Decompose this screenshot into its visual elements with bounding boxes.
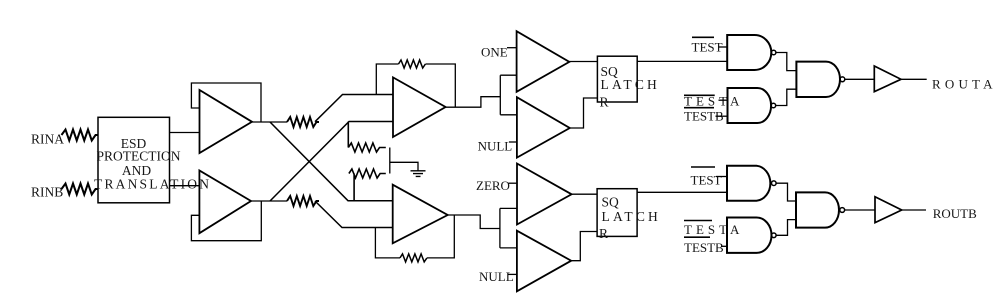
buffer U14 (output A) bbox=[874, 66, 901, 92]
node TEST label (lower) bbox=[691, 166, 715, 168]
svg-text:TESTA: TESTA bbox=[684, 222, 743, 237]
svg-text:TESTA: TESTA bbox=[684, 93, 743, 108]
node TESTA label (upper) bbox=[684, 94, 715, 96]
wire X2 output staircase bbox=[448, 208, 517, 248]
svg-text:SQ: SQ bbox=[602, 195, 620, 210]
nand gate U13 bbox=[796, 62, 840, 97]
svg-text:TEST: TEST bbox=[692, 40, 723, 55]
wire TESTA to gate bbox=[719, 99, 728, 101]
svg-text:LATCH: LATCH bbox=[602, 209, 662, 224]
latch U10 (SQ LATCH lower) bbox=[597, 189, 637, 237]
wire TEST to gate bbox=[719, 46, 728, 48]
buffer U2 (upper) bbox=[200, 90, 253, 153]
wire ONE to comparator bbox=[507, 47, 517, 49]
comparator U7 (ZERO) bbox=[517, 164, 572, 225]
resistor R4 bbox=[287, 196, 319, 206]
buffer U18 (output B) bbox=[875, 197, 902, 223]
wire comparator U4 to latch bbox=[569, 61, 597, 63]
node TEST label (upper) bbox=[692, 36, 714, 38]
resistor R1 bbox=[62, 130, 99, 141]
svg-text:NULL: NULL bbox=[479, 269, 514, 284]
svg-text:ZERO: ZERO bbox=[476, 178, 510, 193]
wire ROUTB bbox=[902, 209, 926, 211]
wire feedback loop buffer U3 bbox=[191, 201, 261, 241]
resistor R5 (terminator upper) bbox=[348, 122, 386, 153]
wire TESTB to gate bbox=[721, 245, 727, 247]
wire ZERO to comparator bbox=[509, 182, 518, 184]
svg-text:RINB: RINB bbox=[31, 185, 63, 200]
wire latch U10 output bbox=[637, 191, 727, 193]
resistor R7 bbox=[399, 60, 426, 68]
ground bbox=[411, 171, 426, 177]
wire feedback X2 with resistor R8 bbox=[375, 215, 454, 258]
op-amp X2 (lower) bbox=[393, 185, 448, 244]
svg-text:ROUTA: ROUTA bbox=[932, 76, 997, 91]
wire U16 out bbox=[776, 220, 796, 236]
wire ESD to buffer B bbox=[170, 185, 200, 187]
wire U13 out bbox=[845, 78, 875, 80]
wire U17 out bbox=[845, 209, 875, 211]
nand gate U17 bbox=[796, 192, 839, 227]
wire diagonal to X2 lower input bbox=[315, 201, 393, 228]
wire TESTB to gate bbox=[716, 115, 728, 117]
resistor R6 (terminator lower) bbox=[349, 169, 386, 201]
resistor R8 bbox=[400, 254, 427, 262]
wire ROUTA bbox=[901, 78, 927, 80]
svg-text:TRANSLATION: TRANSLATION bbox=[94, 177, 211, 192]
svg-text:NULL: NULL bbox=[478, 139, 513, 154]
svg-text:ROUTB: ROUTB bbox=[933, 206, 977, 221]
nand gate U15 bbox=[727, 166, 770, 201]
svg-text:PROTECTION: PROTECTION bbox=[97, 149, 181, 164]
latch U9 (SQ LATCH upper) bbox=[597, 56, 637, 102]
svg-text:TEST: TEST bbox=[691, 173, 722, 188]
wire U15 out bbox=[776, 183, 796, 201]
wire U12 out bbox=[776, 89, 797, 105]
op-amp X1 (upper) bbox=[393, 77, 446, 137]
nand gate U12 bbox=[728, 88, 772, 123]
ESD protection box U1 bbox=[98, 117, 170, 203]
wire feedback X1 with resistor R7 bbox=[376, 64, 455, 107]
wire crossing diagonal B bbox=[270, 122, 393, 202]
wire NULL to comparator bbox=[509, 141, 517, 143]
wire diagonal to X1 upper input bbox=[315, 95, 393, 122]
node TESTB label (upper) bbox=[684, 107, 714, 109]
svg-text:R: R bbox=[599, 226, 608, 241]
node TESTA label (lower) bbox=[684, 220, 712, 222]
comparator U4 (ONE) bbox=[517, 31, 570, 92]
wire U11 out bbox=[776, 53, 797, 71]
comparator U8 (NULL lower) bbox=[517, 231, 571, 292]
wire to ground bbox=[390, 148, 418, 174]
resistor R2 bbox=[62, 184, 99, 195]
nand gate U16 bbox=[727, 218, 772, 253]
wire comparator U5 to latch R input bbox=[570, 98, 598, 128]
wire feedback loop buffer U2 bbox=[191, 83, 261, 122]
wire X1 output staircase bbox=[446, 75, 517, 115]
resistor R3 bbox=[287, 117, 319, 127]
wire ESD to buffer A bbox=[170, 132, 200, 134]
nand gate U11 bbox=[727, 35, 771, 70]
svg-text:R: R bbox=[600, 94, 609, 109]
wire buffer U3 output bbox=[251, 200, 287, 202]
buffer U3 (lower) bbox=[199, 171, 251, 234]
wire comparator U7 to latch bbox=[572, 193, 598, 195]
svg-text:RINA: RINA bbox=[31, 132, 64, 147]
svg-text:ONE: ONE bbox=[481, 45, 508, 60]
wire crossing diagonal A bbox=[270, 122, 393, 201]
svg-text:TESTB: TESTB bbox=[684, 240, 724, 255]
wire TEST to gate bbox=[716, 176, 727, 178]
wire buffer U2 output bbox=[252, 121, 287, 123]
node TESTB label (lower) bbox=[684, 236, 710, 238]
wire latch U9 output bbox=[637, 60, 727, 62]
svg-text:LATCH: LATCH bbox=[601, 77, 661, 92]
wire NULL to comparator bbox=[508, 273, 517, 275]
wire TESTA to gate bbox=[726, 230, 727, 232]
comparator U5 (NULL upper) bbox=[517, 97, 570, 157]
wire comparator U8 to latch R input bbox=[571, 232, 597, 261]
